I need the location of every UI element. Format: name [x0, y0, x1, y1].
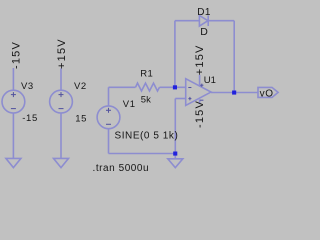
svg-text:5k: 5k — [141, 95, 151, 106]
svg-text:SINE(0 5 1k): SINE(0 5 1k) — [115, 131, 179, 142]
svg-text:.tran 5000u: .tran 5000u — [93, 163, 150, 174]
svg-text:D1: D1 — [197, 7, 211, 18]
svg-text:15: 15 — [75, 114, 87, 125]
svg-text:+15V: +15V — [56, 38, 68, 69]
svg-text:+15V: +15V — [194, 44, 206, 75]
svg-text:vO: vO — [260, 88, 274, 99]
svg-text:D: D — [200, 26, 208, 38]
svg-text:V3: V3 — [21, 81, 34, 92]
svg-text:-15V: -15V — [11, 41, 23, 69]
svg-text:V2: V2 — [74, 81, 87, 92]
svg-text:-15: -15 — [22, 113, 38, 124]
svg-text:U1: U1 — [204, 75, 216, 86]
svg-text:-15V: -15V — [194, 100, 206, 128]
svg-text:R1: R1 — [140, 69, 153, 80]
svg-text:V1: V1 — [123, 99, 136, 110]
